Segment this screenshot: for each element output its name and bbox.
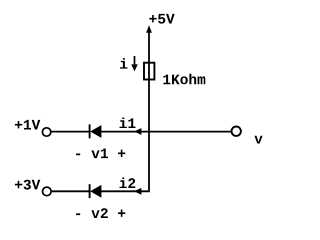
current label i: [120, 58, 127, 69]
terminal circle +1V: [42, 128, 50, 136]
current arrow i1 left: [134, 128, 141, 135]
current arrow i2 left: [134, 188, 141, 195]
terminal node +1V label: [15, 120, 40, 130]
voltage label - v2 +: [76, 208, 125, 218]
voltage label - v1 +: [76, 149, 125, 159]
wire vertical rail: [148, 31, 150, 190]
wire branch2 right segment with corner: [101, 190, 150, 192]
wire branch1 left segment: [52, 131, 90, 133]
power supply arrow up: [146, 25, 152, 32]
node V output label: [254, 136, 262, 144]
terminal circle V: [232, 127, 241, 136]
terminal node +3V label: [15, 180, 40, 190]
wire branch1 right segment: [101, 131, 150, 133]
current arrow i down: [131, 56, 138, 71]
wire branch2 left segment: [52, 190, 90, 192]
terminal circle +3V: [43, 187, 52, 196]
diode D1: [90, 124, 102, 138]
resistor R1 1Kohm: [144, 63, 154, 80]
diode D2: [90, 184, 102, 198]
value label 1Kohm: [163, 74, 205, 85]
current label i1: [120, 118, 136, 129]
node +5V supply label: [149, 14, 174, 24]
wire output segment to node V: [149, 131, 231, 133]
current label i2: [120, 178, 136, 189]
